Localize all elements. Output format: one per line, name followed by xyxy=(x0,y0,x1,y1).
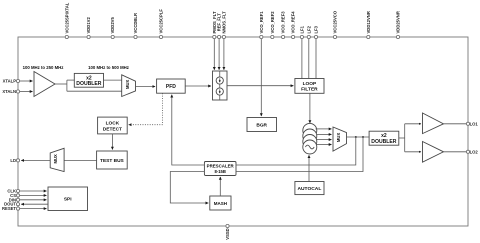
svg-text:XTALN: XTALN xyxy=(2,89,16,94)
x2 doubler (reference) xyxy=(74,73,103,87)
wire NMOS_FLT down xyxy=(223,39,225,70)
pin LF1 xyxy=(300,35,303,38)
PFD xyxy=(157,79,186,93)
svg-text:MUX: MUX xyxy=(125,79,130,89)
wire node A to prescaler xyxy=(236,137,356,165)
wire DIN xyxy=(20,199,47,201)
chip outline xyxy=(18,37,468,226)
pin VCO_REF3 xyxy=(282,35,285,38)
pin VDD25VNR xyxy=(396,35,399,38)
node A xyxy=(355,136,357,138)
wire DOUT xyxy=(21,203,48,205)
pin REF_FLT xyxy=(218,35,221,38)
svg-text:VCO_REF1: VCO_REF1 xyxy=(259,11,264,34)
wire loop filter to VCO xyxy=(309,93,311,123)
lock detect xyxy=(98,117,128,134)
prescaler xyxy=(204,162,236,176)
pin CLK xyxy=(16,189,19,192)
wire test bus to LD mux xyxy=(64,159,97,161)
pin VCO_REF4 xyxy=(292,35,295,38)
svg-text:VDD1V2: VDD1V2 xyxy=(86,17,91,34)
wire LF1 down xyxy=(301,39,303,79)
svg-text:SPI: SPI xyxy=(64,196,72,202)
svg-text:VCCDBLR: VCCDBLR xyxy=(133,13,138,33)
svg-text:RESET: RESET xyxy=(2,206,16,211)
wire mux to doubler xyxy=(347,136,370,138)
pin RESET xyxy=(16,207,19,210)
svg-text:XTALP: XTALP xyxy=(3,79,17,84)
svg-text:VSSD: VSSD xyxy=(225,228,230,239)
svg-text:100 MHz to 250 MHz: 100 MHz to 250 MHz xyxy=(23,65,64,70)
wire PMOS_FLT down xyxy=(213,39,215,70)
VCO to mux arrows xyxy=(316,128,332,130)
VCO stack xyxy=(303,123,317,137)
svg-text:100 MHz to 500 MHz: 100 MHz to 500 MHz xyxy=(88,65,129,70)
wire doubler to mux xyxy=(104,79,122,81)
pin DIN xyxy=(16,198,19,201)
svg-text:LF2: LF2 xyxy=(306,25,311,33)
mux LD xyxy=(50,148,64,171)
buffer LO1 xyxy=(423,113,444,134)
svg-text:DETECT: DETECT xyxy=(103,126,122,132)
wire CS xyxy=(20,194,47,196)
wire LO2 out xyxy=(444,151,467,153)
svg-text:VCO_REF3: VCO_REF3 xyxy=(281,11,286,34)
pin NMOS_FLT xyxy=(222,35,225,38)
svg-text:MUX: MUX xyxy=(336,133,341,143)
charge pump U-CP xyxy=(213,71,228,100)
wire prescaler feedback to PFD xyxy=(172,95,205,165)
pin CS xyxy=(16,194,19,197)
pin LO1 xyxy=(466,122,469,125)
pin PMOS_FLT xyxy=(213,35,216,38)
wire MASH to prescaler xyxy=(219,177,221,196)
wire prescaler to MASH xyxy=(170,172,208,204)
wire LD mux to LD pin xyxy=(21,159,50,161)
wire XTALP to amp xyxy=(20,80,33,82)
x2 doubler (output) xyxy=(369,131,399,145)
wire lock detect to test bus xyxy=(111,134,113,150)
svg-text:LO1: LO1 xyxy=(470,122,479,127)
pin VCC25CPLF xyxy=(159,35,162,38)
wire PFD to charge pump xyxy=(185,85,211,87)
svg-text:PFD: PFD xyxy=(166,84,176,90)
svg-text:VCC25CPLF: VCC25CPLF xyxy=(159,9,164,34)
pin XTALN xyxy=(16,90,19,93)
wire charge pump to loop filter xyxy=(227,85,293,87)
wire REF_FLT down xyxy=(218,39,220,70)
SPI xyxy=(48,187,88,211)
wire CLK xyxy=(20,190,47,192)
svg-text:PRESCALER: PRESCALER xyxy=(207,164,235,169)
wire node B to prescaler xyxy=(236,137,363,172)
svg-text:FILTER: FILTER xyxy=(301,86,318,92)
wire RESET xyxy=(20,208,47,210)
MASH xyxy=(210,196,231,210)
test bus xyxy=(97,151,128,169)
pin LO2 xyxy=(466,150,469,153)
wire LF2 down xyxy=(308,39,310,79)
pin VDD12VNR xyxy=(367,35,370,38)
mux VCO xyxy=(333,127,347,151)
svg-text:MASH: MASH xyxy=(214,201,227,206)
svg-text:DOUBLER: DOUBLER xyxy=(76,81,102,87)
loop filter xyxy=(295,79,324,94)
svg-text:8-15B: 8-15B xyxy=(214,169,225,174)
wire LO1 out xyxy=(444,123,467,125)
wire VCO_REF1 to BGR xyxy=(260,39,262,116)
svg-text:TEST BUS: TEST BUS xyxy=(100,158,125,164)
svg-text:LOCK: LOCK xyxy=(106,121,120,127)
svg-text:LO2: LO2 xyxy=(470,150,479,155)
pin VDD2V5 xyxy=(111,35,114,38)
wire XTALN to amp xyxy=(20,91,33,93)
wire to doubler xyxy=(67,79,74,81)
amp output buffer triangle xyxy=(34,72,55,97)
pin VSSD xyxy=(226,224,229,227)
svg-text:VCO_REF2: VCO_REF2 xyxy=(270,11,275,34)
svg-text:VDD2V5: VDD2V5 xyxy=(110,17,115,34)
BGR xyxy=(247,118,277,132)
wire LF3 down xyxy=(315,39,317,79)
wire doubler to buffers xyxy=(399,137,405,139)
AUTOCAL xyxy=(295,182,324,195)
svg-text:MUX: MUX xyxy=(53,154,58,164)
svg-text:LF3: LF3 xyxy=(314,25,319,33)
svg-text:LOOP: LOOP xyxy=(303,81,317,87)
svg-text:VCC25SPIXTAL: VCC25SPIXTAL xyxy=(64,2,69,33)
svg-text:DOUBLER: DOUBLER xyxy=(371,139,397,145)
wire amp output junction xyxy=(55,83,67,85)
svg-text:BGR: BGR xyxy=(256,122,267,128)
mux reference xyxy=(122,75,136,97)
svg-text:VCO_REF4: VCO_REF4 xyxy=(291,11,296,34)
dotted wire PFD to lock detect xyxy=(129,93,163,125)
svg-text:LF1: LF1 xyxy=(299,25,304,33)
svg-text:LD: LD xyxy=(10,158,16,163)
svg-text:AUTOCAL: AUTOCAL xyxy=(297,186,321,192)
node B xyxy=(362,136,364,138)
pin VCC25VCO xyxy=(333,35,336,38)
pin VCCDBLR xyxy=(134,35,137,38)
wire mux to PFD xyxy=(136,86,156,88)
svg-text:VCC25VCO: VCC25VCO xyxy=(333,10,338,33)
pin VCC25SPIXTAL xyxy=(65,35,68,38)
buffer LO2 xyxy=(423,142,444,163)
svg-text:VDD25VNR: VDD25VNR xyxy=(396,11,401,33)
pin LF2 xyxy=(307,35,310,38)
wire bypass to mux xyxy=(67,90,122,92)
pin VDD1V2 xyxy=(87,35,90,38)
pin XTALP xyxy=(16,79,19,82)
svg-text:VDD12VNR: VDD12VNR xyxy=(366,11,371,33)
svg-text:NMOS_FLT: NMOS_FLT xyxy=(221,11,226,34)
pin LF3 xyxy=(314,35,317,38)
wire autocal to VCO xyxy=(308,155,310,181)
pin LD xyxy=(16,159,19,162)
pin VCO_REF1 xyxy=(260,35,263,38)
pin VCO_REF2 xyxy=(271,35,274,38)
pin DOUT xyxy=(16,203,19,206)
